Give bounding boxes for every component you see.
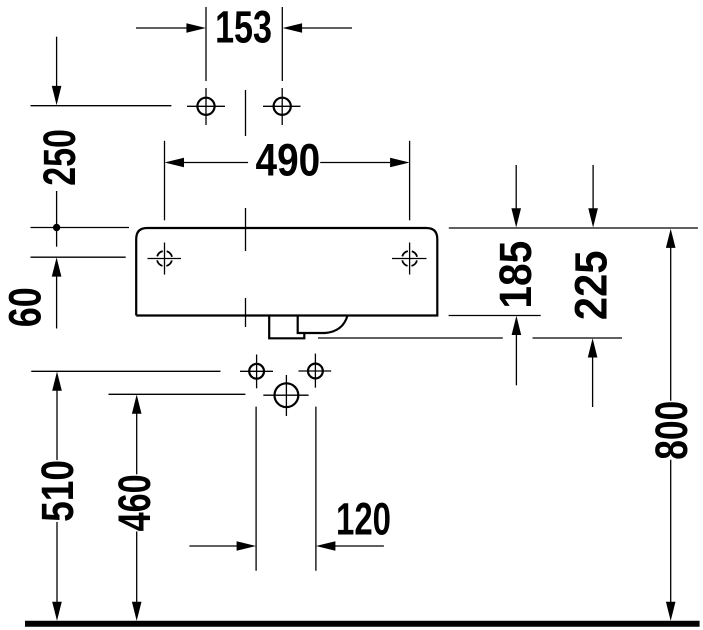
svg-text:490: 490 <box>256 135 321 186</box>
reference line at faucet level (250 top) <box>31 105 172 107</box>
extension line right of 153 <box>281 7 283 81</box>
dimension 250 top arrow <box>52 37 62 106</box>
extension line right of 120 <box>315 407 317 571</box>
dimension 510 bottom shaft and arrow <box>52 522 62 621</box>
small hole right crosshair <box>298 354 331 388</box>
mounting hole right crosshair <box>392 243 427 275</box>
svg-text:225: 225 <box>566 250 617 320</box>
svg-text:153: 153 <box>215 2 272 53</box>
dimension 800 upper arrow and shaft <box>666 229 676 401</box>
svg-text:60: 60 <box>0 287 51 327</box>
dimension 510 top arrow <box>52 372 62 461</box>
svg-text:510: 510 <box>32 460 83 522</box>
reference line at drain hole level (460 top) <box>109 393 246 395</box>
dimension 225 bottom arrow <box>588 338 598 407</box>
extension line right of 490 <box>409 141 411 221</box>
extension line left of 490 <box>164 141 166 221</box>
dimension 460 top arrow <box>132 395 142 475</box>
dimension 490 dim line with outward arrows <box>165 158 410 167</box>
reference line basin-bottom extended right <box>449 315 541 317</box>
dimension 185 bottom arrow <box>512 316 522 386</box>
dimension 800 lower shaft and arrow <box>666 460 676 621</box>
dimension 120 right arrow with tail <box>316 541 384 550</box>
faucet hole right crosshair <box>263 88 301 125</box>
dimension 153 dim line right segment with arrow <box>283 23 352 32</box>
dimension 250 lower shaft <box>56 191 58 247</box>
reference line at mounting hole level (left) <box>31 256 126 258</box>
basin outline <box>136 228 437 316</box>
mounting hole right (dashed) <box>402 251 417 266</box>
dimension 60 bottom arrow <box>52 257 62 328</box>
dimension 120 left arrow with tail <box>189 541 256 550</box>
centerline of faucet group <box>245 90 247 327</box>
svg-text:800: 800 <box>646 401 697 460</box>
faucet hole left <box>197 98 214 115</box>
mounting hole left (dashed) <box>157 251 172 266</box>
junction dot shared by 250 and 60 <box>53 224 60 231</box>
svg-text:460: 460 <box>109 474 160 531</box>
small hole right <box>308 364 323 379</box>
reference line at basin top (left) <box>31 227 130 229</box>
floor line <box>25 621 700 627</box>
reference line at small holes level (510 top) <box>31 370 220 372</box>
dimension 225 top arrow <box>588 165 598 228</box>
small hole left <box>249 364 264 379</box>
drain hole crosshair <box>263 375 308 416</box>
faucet hole left crosshair <box>187 88 225 125</box>
reference line drain-bottom extended right (two segments) <box>318 337 622 339</box>
dimension 153 dim line left segment with arrow <box>136 23 206 32</box>
extension line left of 120 <box>255 407 257 571</box>
drain spout profile <box>298 316 348 334</box>
dimension 460 bottom shaft and arrow <box>132 531 142 621</box>
mounting hole left crosshair <box>148 243 182 275</box>
small hole left crosshair <box>240 355 273 389</box>
siphon cover tab <box>269 316 304 338</box>
extension line left of 153 <box>205 7 207 81</box>
faucet hole right <box>274 98 291 115</box>
drain hole <box>275 383 299 407</box>
svg-text:250: 250 <box>34 129 85 186</box>
reference line basin-top extended right <box>449 227 698 229</box>
svg-text:185: 185 <box>490 241 541 309</box>
svg-text:120: 120 <box>336 494 391 545</box>
dimension 185 top arrow <box>511 165 521 228</box>
